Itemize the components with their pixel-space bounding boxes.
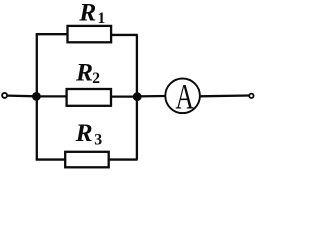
terminal T1 (left open circle) [2,93,7,98]
svg-text:2: 2 [92,70,100,87]
ammeter A (letter) [175,76,194,116]
wire (right bus vertical) [136,35,138,160]
wire (left terminal to left junction) [8,94,37,97]
svg-text:A: A [175,76,194,116]
resistor R3 (box) [65,152,109,168]
wire (left bus vertical) [36,34,38,159]
svg-text:1: 1 [98,10,106,27]
ammeter A (circle) [165,79,200,114]
label R2 [75,58,100,87]
wire (right junction to ammeter) [137,95,165,98]
wire (branch 1 left: bus to R1) [36,33,68,35]
svg-text:R: R [75,118,93,147]
wire (branch 2 right: R2 to right junction) [111,95,137,97]
terminal T2 (right open circle) [249,94,253,98]
resistor R2 (box) [67,89,111,106]
node J2 (right junction dot) [133,92,142,101]
svg-text:R: R [78,0,96,26]
node J1 (left junction dot) [32,92,41,101]
wire (branch 1 right: R1 to right bus) [111,34,138,36]
wire (branch 2 left: junction to R2) [37,95,67,97]
wire (branch 3 left: bus to R3) [36,158,65,160]
svg-text:R: R [75,58,93,87]
svg-text:3: 3 [94,131,102,148]
wire (ammeter to right terminal) [200,94,249,97]
label R1 [78,0,105,27]
label R3 [75,118,103,149]
wire (branch 3 right: R3 to right bus) [109,158,138,160]
resistor R1 (box) [68,26,112,42]
